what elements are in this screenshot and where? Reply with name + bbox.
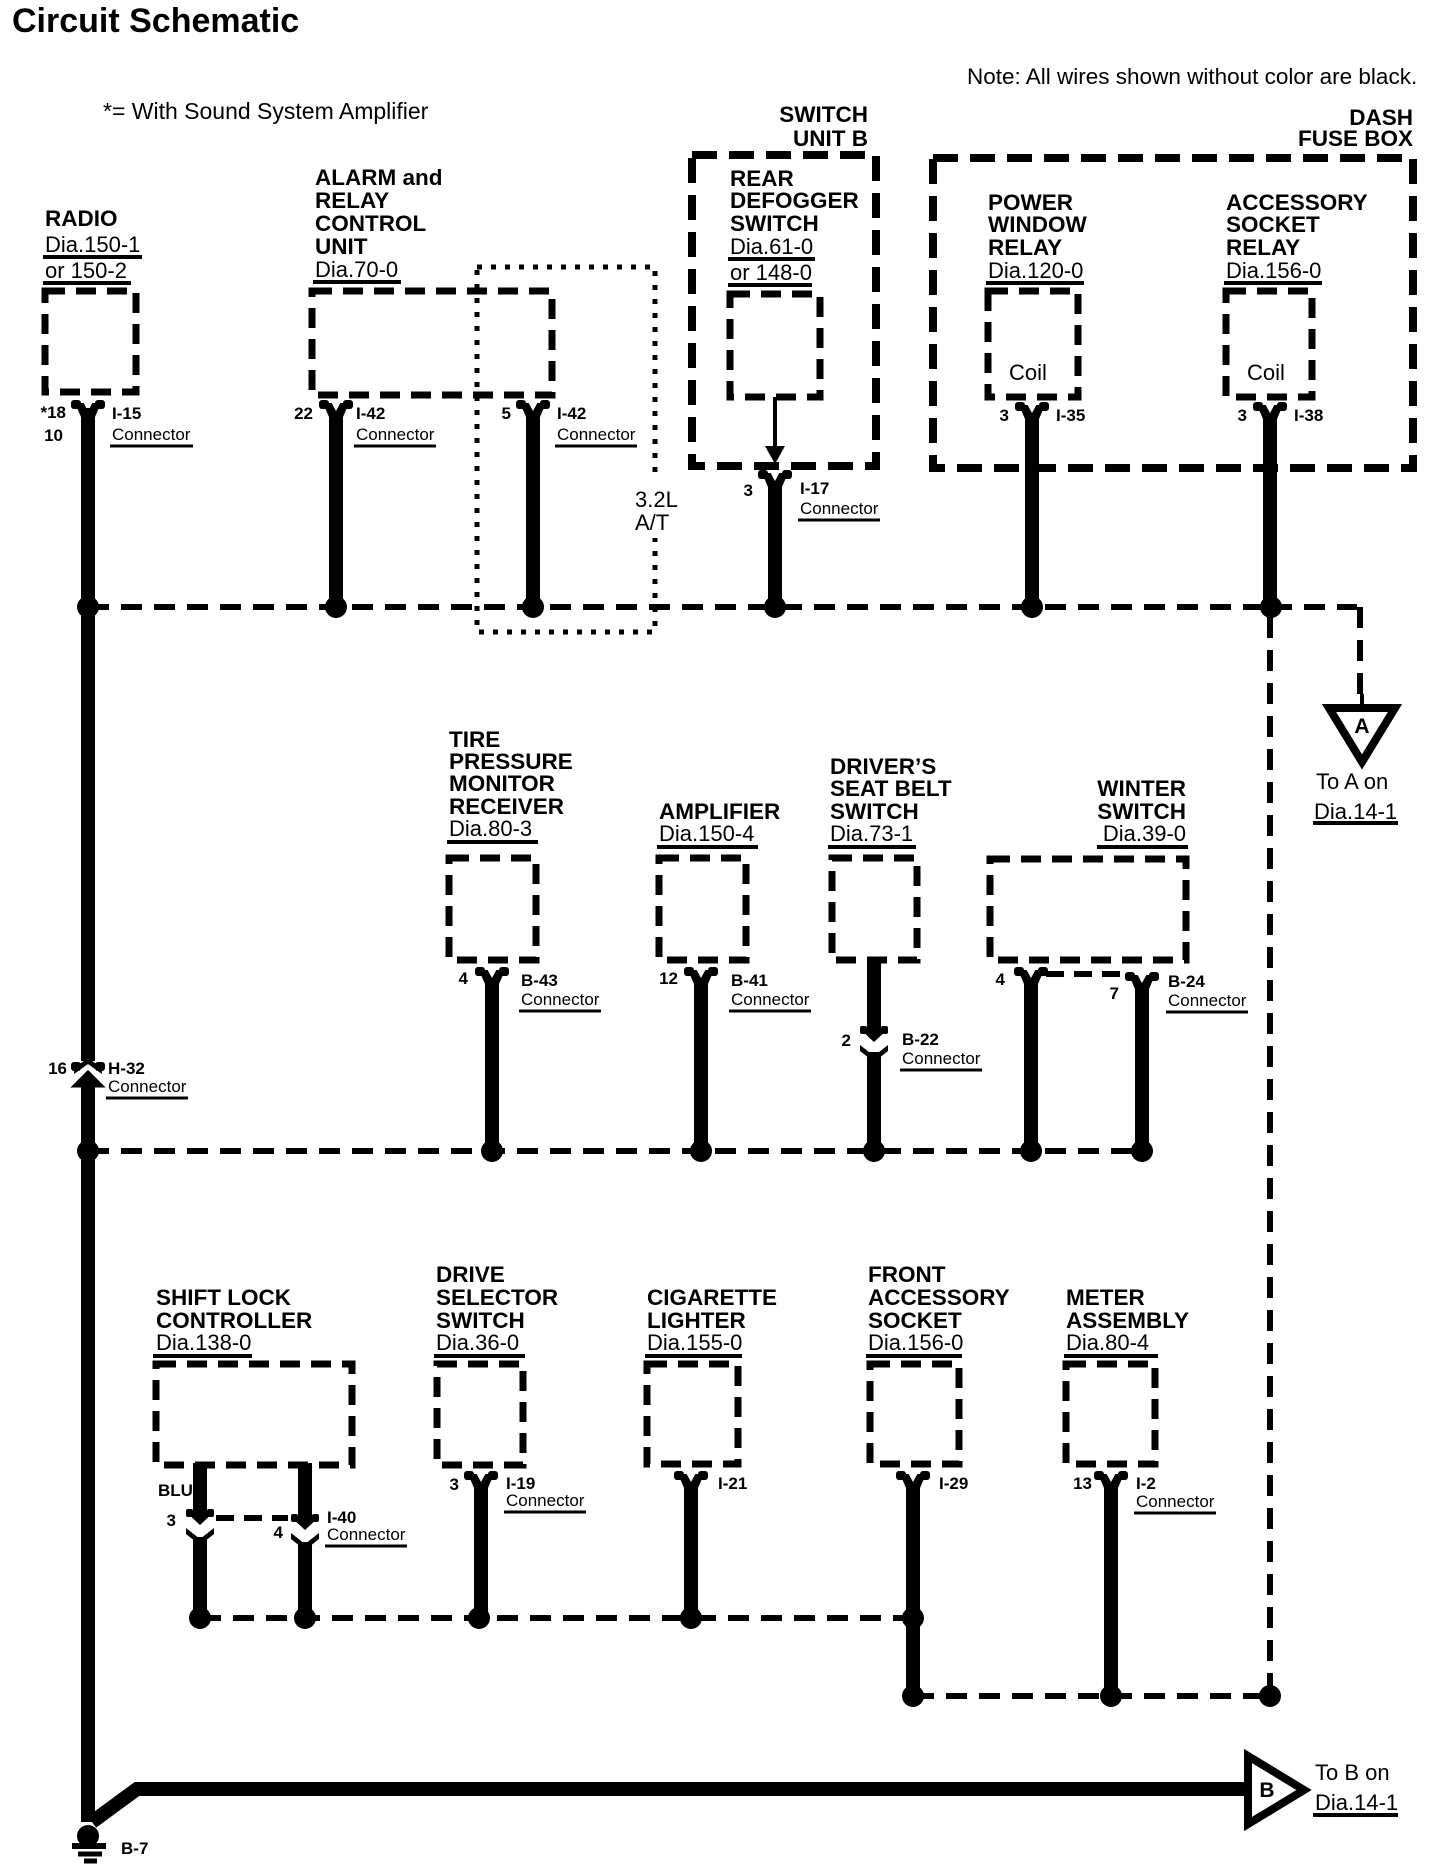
svg-text:RADIO: RADIO <box>45 206 118 231</box>
svg-text:Coil: Coil <box>1247 360 1285 385</box>
svg-text:Connector: Connector <box>731 990 810 1009</box>
svg-text:B: B <box>1259 1779 1274 1802</box>
svg-text:FRONT: FRONT <box>868 1262 946 1287</box>
svg-text:10: 10 <box>44 426 63 445</box>
svg-text:B-7: B-7 <box>121 1839 148 1858</box>
svg-text:Connector: Connector <box>506 1491 585 1510</box>
svg-text:Connector: Connector <box>1136 1492 1215 1511</box>
svg-text:RELAY: RELAY <box>1226 235 1300 260</box>
svg-text:ACCESSORY: ACCESSORY <box>868 1285 1010 1310</box>
svg-text:3: 3 <box>167 1511 176 1530</box>
svg-text:*18: *18 <box>40 403 66 422</box>
svg-text:SWITCH: SWITCH <box>730 211 819 236</box>
svg-text:Connector: Connector <box>327 1525 406 1544</box>
svg-text:SWITCH: SWITCH <box>779 102 868 127</box>
svg-text:I-42: I-42 <box>356 404 385 423</box>
svg-text:I-35: I-35 <box>1056 406 1085 425</box>
svg-text:Dia.156-0: Dia.156-0 <box>868 1330 963 1355</box>
svg-text:Dia.70-0: Dia.70-0 <box>315 257 398 282</box>
svg-text:Dia.36-0: Dia.36-0 <box>436 1330 519 1355</box>
svg-text:Dia.120-0: Dia.120-0 <box>988 258 1083 283</box>
svg-text:Coil: Coil <box>1009 360 1047 385</box>
svg-text:Connector: Connector <box>112 425 191 444</box>
svg-text:Dia.39-0: Dia.39-0 <box>1103 821 1186 846</box>
svg-text:UNIT: UNIT <box>315 234 368 259</box>
svg-text:16: 16 <box>48 1059 67 1078</box>
svg-text:7: 7 <box>1110 984 1119 1003</box>
svg-text:To A on: To A on <box>1316 769 1388 794</box>
svg-text:SELECTOR: SELECTOR <box>436 1285 558 1310</box>
svg-text:H-32: H-32 <box>108 1059 145 1078</box>
svg-text:SEAT BELT: SEAT BELT <box>830 776 952 801</box>
svg-text:Dia.150-4: Dia.150-4 <box>659 821 754 846</box>
svg-text:I-38: I-38 <box>1294 406 1323 425</box>
svg-text:or 148-0: or 148-0 <box>730 260 812 285</box>
svg-text:A: A <box>1354 715 1369 738</box>
svg-text:I-2: I-2 <box>1136 1474 1156 1493</box>
svg-text:12: 12 <box>659 969 678 988</box>
svg-text:*= With Sound System Amplifier: *= With Sound System Amplifier <box>103 98 429 124</box>
svg-text:Connector: Connector <box>902 1049 981 1068</box>
svg-text:B-24: B-24 <box>1168 972 1205 991</box>
svg-text:Dia.73-1: Dia.73-1 <box>830 821 913 846</box>
svg-text:4: 4 <box>274 1523 284 1542</box>
svg-text:CONTROL: CONTROL <box>315 211 426 236</box>
svg-text:A/T: A/T <box>635 510 669 535</box>
svg-text:Circuit Schematic: Circuit Schematic <box>12 2 299 40</box>
svg-text:METER: METER <box>1066 1285 1145 1310</box>
svg-text:Connector: Connector <box>557 425 636 444</box>
svg-text:5: 5 <box>502 404 511 423</box>
svg-text:ALARM and: ALARM and <box>315 165 443 190</box>
svg-text:RELAY: RELAY <box>315 188 389 213</box>
svg-text:or 150-2: or 150-2 <box>45 258 127 283</box>
svg-text:B-43: B-43 <box>521 971 558 990</box>
svg-text:CIGARETTE: CIGARETTE <box>647 1285 777 1310</box>
svg-text:MONITOR: MONITOR <box>449 771 555 796</box>
svg-text:I-42: I-42 <box>557 404 586 423</box>
svg-text:3: 3 <box>1238 406 1247 425</box>
svg-text:3: 3 <box>744 481 753 500</box>
svg-text:Connector: Connector <box>521 990 600 1009</box>
svg-text:Dia.61-0: Dia.61-0 <box>730 234 813 259</box>
svg-text:3.2L: 3.2L <box>635 487 678 512</box>
svg-text:Dia.155-0: Dia.155-0 <box>647 1330 742 1355</box>
svg-text:Note: All wires shown without: Note: All wires shown without color are … <box>967 64 1417 89</box>
svg-text:3: 3 <box>450 1475 459 1494</box>
svg-text:Dia.150-1: Dia.150-1 <box>45 232 140 257</box>
svg-text:2: 2 <box>842 1031 851 1050</box>
svg-text:B-41: B-41 <box>731 971 768 990</box>
svg-text:BLU: BLU <box>158 1481 193 1500</box>
svg-text:FUSE BOX: FUSE BOX <box>1298 126 1413 151</box>
svg-text:Connector: Connector <box>1168 991 1247 1010</box>
svg-text:B-22: B-22 <box>902 1030 939 1049</box>
svg-text:WINDOW: WINDOW <box>988 212 1087 237</box>
svg-text:DEFOGGER: DEFOGGER <box>730 188 859 213</box>
svg-text:3: 3 <box>1000 406 1009 425</box>
svg-text:Connector: Connector <box>108 1077 187 1096</box>
svg-text:Dia.14-1: Dia.14-1 <box>1314 799 1397 824</box>
svg-text:DRIVE: DRIVE <box>436 1262 505 1287</box>
svg-text:Dia.80-4: Dia.80-4 <box>1066 1330 1149 1355</box>
svg-text:Connector: Connector <box>800 499 879 518</box>
svg-text:Dia.138-0: Dia.138-0 <box>156 1330 251 1355</box>
svg-text:I-29: I-29 <box>939 1474 968 1493</box>
svg-text:RELAY: RELAY <box>988 235 1062 260</box>
svg-text:I-21: I-21 <box>718 1474 747 1493</box>
svg-text:4: 4 <box>996 970 1006 989</box>
svg-text:22: 22 <box>294 404 313 423</box>
svg-text:I-15: I-15 <box>112 404 141 423</box>
svg-text:To B on: To B on <box>1315 1760 1390 1785</box>
svg-text:Dia.14-1: Dia.14-1 <box>1315 1790 1398 1815</box>
svg-text:SHIFT LOCK: SHIFT LOCK <box>156 1285 292 1310</box>
svg-text:WINTER: WINTER <box>1097 776 1186 801</box>
svg-text:Dia.80-3: Dia.80-3 <box>449 816 532 841</box>
svg-text:Dia.156-0: Dia.156-0 <box>1226 258 1321 283</box>
svg-text:SOCKET: SOCKET <box>1226 212 1320 237</box>
svg-text:4: 4 <box>459 969 469 988</box>
svg-text:13: 13 <box>1073 1474 1092 1493</box>
svg-text:I-17: I-17 <box>800 479 829 498</box>
svg-text:UNIT B: UNIT B <box>793 126 868 151</box>
svg-text:Connector: Connector <box>356 425 435 444</box>
